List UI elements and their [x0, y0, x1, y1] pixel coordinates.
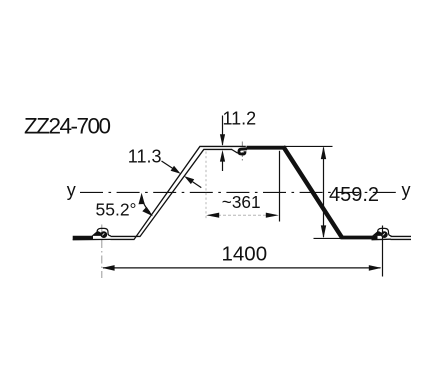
svg-text:1400: 1400 [222, 243, 268, 266]
interlock bottom left (ball and hook) [73, 228, 111, 239]
interlock bottom right (ball and hook) [372, 228, 392, 239]
dimension 11.3 leader and arrows across web [162, 161, 202, 188]
svg-text:55.2°: 55.2° [96, 199, 137, 219]
svg-text:459.2: 459.2 [329, 184, 379, 206]
svg-text:~361: ~361 [222, 192, 261, 212]
wire thin element outline (left Z: bottom flange, web, top flange) [111, 146, 246, 239]
dimension ~361 extension line left (dotted) [205, 152, 207, 221]
wire thin tail right of right interlock [391, 236, 412, 239]
svg-text:11.2: 11.2 [223, 109, 257, 129]
dimension 11.2 upper arrow [220, 116, 225, 147]
svg-text:y: y [67, 180, 76, 200]
dimension ~361 line and arrows [206, 213, 279, 218]
dimension 1400 extension line left (dash-dot through interlock) [101, 225, 103, 279]
thick neighbour flange bottom left [73, 236, 93, 240]
dimension 459.2 extension line bottom [314, 237, 341, 239]
svg-text:y: y [402, 180, 411, 200]
dimension 11.2 lower arrow [220, 150, 225, 171]
svg-text:11.3: 11.3 [128, 147, 162, 167]
dimension ~361 extension line right (solid) [279, 151, 281, 222]
dimension 55.2 arc with arrows [139, 193, 153, 217]
centerline y-y [80, 191, 399, 193]
thick single pile: top flange, web, bottom flange [247, 147, 378, 238]
dimension 1400 line and arrows [102, 265, 381, 271]
centerline through top interlock [241, 142, 243, 162]
interlock top centre (hook below top flange) [232, 149, 248, 154]
dimension 1400 extension line right (solid through interlock) [382, 226, 384, 277]
svg-text:ZZ24-700: ZZ24-700 [24, 114, 111, 139]
dimension 459.2 vertical line with arrows [321, 146, 326, 238]
dimension 459.2 extension line top [286, 145, 333, 147]
